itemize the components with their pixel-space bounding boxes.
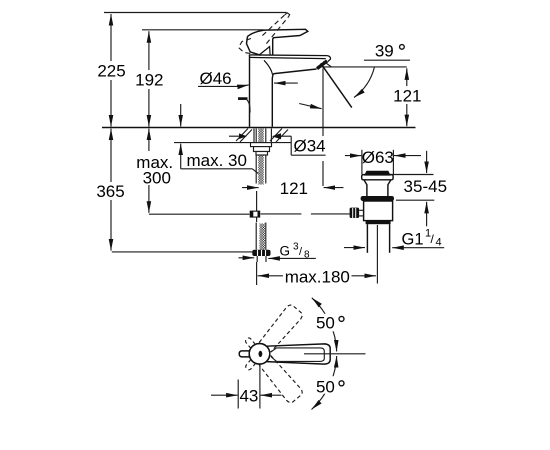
drain plug cap xyxy=(365,171,390,175)
svg-text:39: 39 xyxy=(375,41,394,60)
wire deck bottom line xyxy=(174,142,291,144)
wire max300 extension xyxy=(149,213,250,215)
svg-text:43: 43 xyxy=(239,386,258,405)
arrow at stream reference xyxy=(299,104,321,109)
dimension 225 xyxy=(97,14,125,127)
svg-text:365: 365 xyxy=(96,182,124,201)
svg-text:300: 300 xyxy=(143,169,171,188)
dimension 192 xyxy=(135,31,163,126)
handle pivot dot xyxy=(259,351,263,357)
supply hose braided xyxy=(256,223,266,250)
drain tailpipe xyxy=(366,224,368,253)
angle arc upper 50 xyxy=(312,298,337,352)
svg-text:G: G xyxy=(280,244,291,259)
axis line xyxy=(304,353,366,355)
wire extension line at spout tip x xyxy=(322,68,324,186)
handle rotated dashed upper xyxy=(240,303,304,375)
drain extension lines Ø63 xyxy=(361,150,363,175)
handle butt tab xyxy=(239,351,250,357)
faucet body front view xyxy=(249,55,331,127)
dimension max.300 xyxy=(136,129,173,213)
drain bottom band xyxy=(366,221,391,225)
dimension Ø46 xyxy=(198,69,298,88)
wire reference line 192 xyxy=(142,29,264,31)
drain side knob xyxy=(350,208,360,218)
angle arc lower 50 xyxy=(312,356,337,410)
svg-text:Ø46: Ø46 xyxy=(200,69,232,88)
pop-up rod tee xyxy=(250,211,261,218)
faucet shank below deck xyxy=(254,129,271,185)
svg-text:35-45: 35-45 xyxy=(404,177,447,196)
svg-text:G1: G1 xyxy=(402,231,424,249)
hose connector G3/8 nut xyxy=(252,250,270,262)
wire top reference line 225 xyxy=(104,12,287,14)
deck section hatching right xyxy=(270,129,288,143)
dimension 43 xyxy=(237,380,239,409)
faucet pull rod below deck xyxy=(256,191,258,222)
mounting washer and nut xyxy=(251,143,272,155)
handle lever inner outline xyxy=(271,348,325,362)
dimension 35-45 xyxy=(391,174,434,176)
svg-text:225: 225 xyxy=(97,62,125,81)
dimension 365 xyxy=(96,129,124,251)
svg-text:8: 8 xyxy=(304,250,310,261)
svg-text:50: 50 xyxy=(316,313,335,332)
dimension 121 vertical xyxy=(393,68,421,126)
svg-text:Ø63: Ø63 xyxy=(362,148,394,167)
dimension max.180 xyxy=(258,267,376,286)
svg-text:Ø34: Ø34 xyxy=(294,137,326,156)
pop-up horizontal rod xyxy=(261,213,350,215)
label Ø34 with bracket leader xyxy=(229,136,326,155)
dimension 121 horizontal xyxy=(242,179,344,198)
svg-text:121: 121 xyxy=(393,87,421,106)
drain body xyxy=(364,201,393,221)
label G3/8 xyxy=(239,242,316,261)
drain centerline xyxy=(376,225,378,284)
angle 39 annotation xyxy=(321,41,410,107)
handle lever top view outline xyxy=(267,344,331,364)
faucet handle lever (solid) xyxy=(247,29,308,55)
bottom view: handle top view xyxy=(211,298,366,410)
dimension Ø63 xyxy=(345,155,362,157)
faucet handle raised tip xyxy=(285,13,290,17)
handle pivot circle xyxy=(249,344,270,365)
dimension max.30 xyxy=(181,104,261,176)
svg-text:4: 4 xyxy=(436,237,442,249)
wire 365 reference line xyxy=(112,251,256,253)
node deck line xyxy=(102,127,416,129)
handle pivot circle overlay xyxy=(249,344,270,365)
svg-text:max.180: max.180 xyxy=(285,267,350,286)
drain funnel neck xyxy=(364,180,391,196)
drain seal ring xyxy=(361,196,394,201)
drain flange lip xyxy=(362,175,393,180)
wire centerline to bottom view xyxy=(256,262,258,285)
faucet handle raised (dashed) xyxy=(239,15,289,54)
faucet aerator (black) xyxy=(317,61,327,69)
svg-text:max. 30: max. 30 xyxy=(187,151,247,170)
drain pop-up waste assembly xyxy=(344,148,447,283)
svg-text:192: 192 xyxy=(135,71,163,90)
deck section hatching left xyxy=(236,129,252,143)
faucet pull rod knob xyxy=(238,99,250,113)
handle rotated dashed lower xyxy=(240,333,304,405)
label G1 1/4 xyxy=(344,247,365,249)
svg-text:50: 50 xyxy=(316,377,335,396)
svg-text:121: 121 xyxy=(280,179,308,198)
